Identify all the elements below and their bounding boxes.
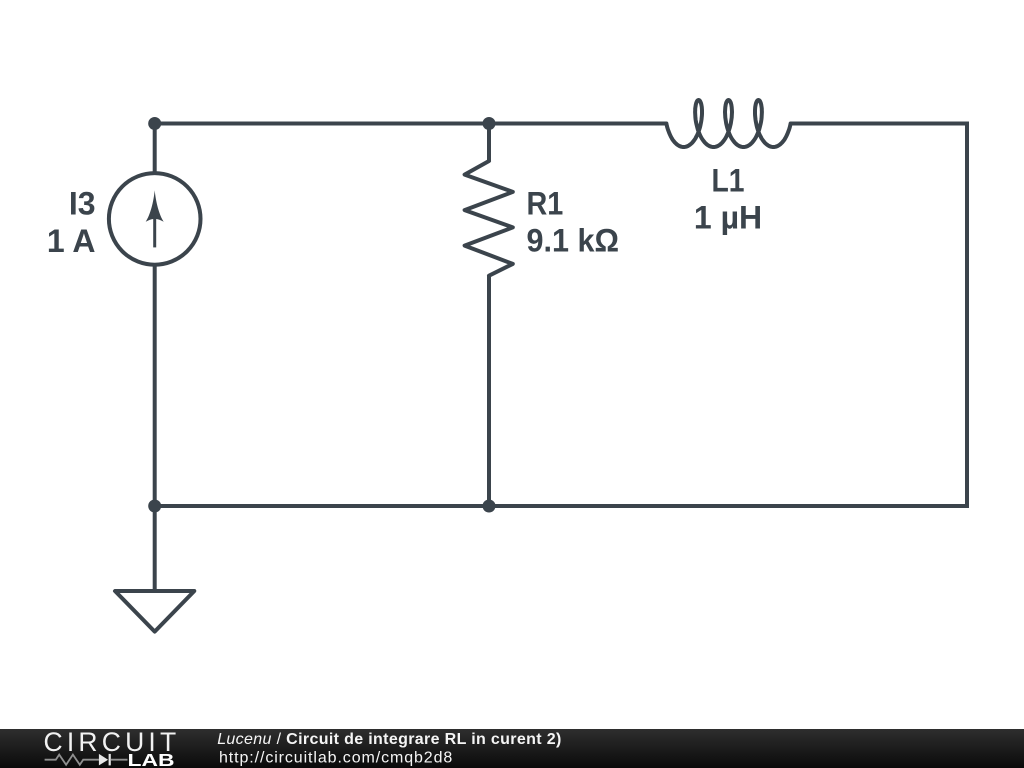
svg-text:L1: L1: [712, 163, 745, 199]
svg-text:LAB: LAB: [128, 750, 175, 768]
wire top-right rail, right rail, bottom rail: [155, 124, 967, 507]
svg-text:1 A: 1 A: [47, 223, 96, 259]
resistor R1 top lead: [487, 124, 491, 162]
I3 arrow: [146, 190, 164, 222]
ground lead: [153, 506, 157, 591]
svg-text:1 µH: 1 µH: [694, 200, 762, 236]
svg-text:9.1 kΩ: 9.1 kΩ: [527, 223, 620, 259]
node A junction dot (top left): [148, 117, 161, 130]
wire top rail left: node A to R1 top: [155, 122, 667, 126]
svg-text:I3: I3: [69, 186, 96, 222]
wire I3 bottom lead: [153, 265, 157, 506]
node junction dot (R1 bottom): [483, 500, 496, 513]
node junction dot (R1 top): [483, 117, 496, 130]
current source I3 circle: [109, 173, 201, 265]
node junction dot (bottom left): [148, 500, 161, 513]
logo diode glyph: [99, 754, 108, 766]
logo resistor glyph: [45, 755, 99, 765]
svg-text:Lucenu / Circuit de integrare: Lucenu / Circuit de integrare RL in cure…: [217, 731, 561, 748]
ground triangle: [115, 591, 194, 632]
logo wire to LAB: [111, 759, 128, 761]
svg-text:R1: R1: [527, 186, 564, 222]
resistor R1 zigzag: [465, 161, 513, 276]
wire I3 top lead: [153, 124, 157, 174]
resistor R1 bottom lead: [487, 276, 491, 506]
inductor L1 coil: [666, 100, 790, 147]
footer bar: [0, 729, 1024, 768]
svg-text:http://circuitlab.com/cmqb2d8: http://circuitlab.com/cmqb2d8: [219, 750, 453, 767]
